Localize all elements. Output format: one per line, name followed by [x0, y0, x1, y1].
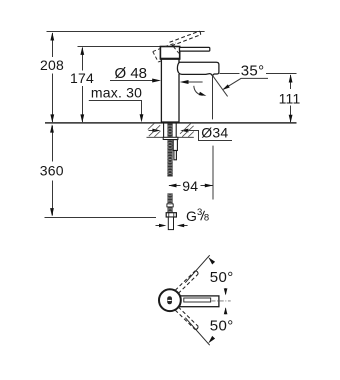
svg-text:3: 3 — [197, 207, 202, 218]
svg-text:8: 8 — [204, 213, 209, 224]
svg-text:360: 360 — [40, 163, 64, 179]
svg-text:Ø 48: Ø 48 — [115, 65, 148, 82]
svg-text:111: 111 — [279, 90, 301, 106]
svg-text:35°: 35° — [241, 62, 265, 79]
svg-text:max. 30: max. 30 — [91, 85, 142, 101]
svg-text:208: 208 — [40, 57, 64, 73]
svg-text:94: 94 — [182, 178, 198, 194]
svg-text:Ø34: Ø34 — [201, 125, 228, 141]
svg-text:50°: 50° — [210, 269, 234, 286]
svg-text:G: G — [186, 208, 197, 224]
svg-text:50°: 50° — [210, 318, 234, 335]
